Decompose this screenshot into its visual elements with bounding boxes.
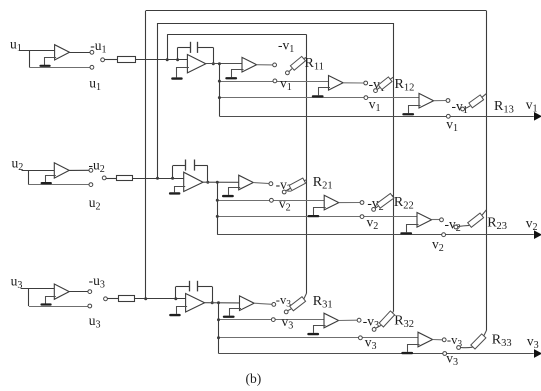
op-amp integrator (186, 294, 205, 313)
node contact -v3 switch S33 (442, 338, 446, 342)
node integrator input junction (176, 58, 179, 61)
node contact -v2 switch S23 (440, 218, 444, 222)
wire S13 pole lever (465, 106, 471, 109)
transistor bar on A30 feedback (40, 303, 51, 305)
wire R32 to bus (392, 312, 395, 313)
op-amp A31 buffer (240, 296, 255, 311)
op-amp A32 (324, 313, 339, 328)
switch pole S11 (286, 71, 290, 75)
wire inner feedback rail top (v to row1 input) (167, 34, 306, 36)
node contact -v3 switch S32 (357, 318, 361, 322)
switch pole S33 (457, 346, 461, 350)
resistor R33 (471, 334, 486, 349)
wire integrator feedback top-right (198, 286, 213, 288)
wire outer rail left vertical x=145.7 (145, 11, 147, 299)
arrow output v3 (535, 350, 541, 357)
capacitor integrator feedback C (190, 42, 192, 53)
ground integrator (169, 314, 181, 316)
resistor R21 (289, 178, 306, 191)
wire feedback bottom of A30 (29, 306, 88, 308)
wire feedback bottom of A20 (28, 184, 89, 186)
ground A13 (402, 113, 414, 115)
switch pole S21 (282, 190, 286, 194)
wire integrator feedback up (172, 166, 174, 178)
ground A23 (400, 232, 412, 234)
wire S11 pole lever (289, 69, 292, 72)
node integrator3 feedback-output junction (211, 301, 214, 304)
node -u2 switch contact (89, 168, 93, 172)
wire integrator input (136, 59, 188, 61)
node contact v2 switch S23 on output line (442, 233, 446, 237)
wire A32 lower input to ground (314, 326, 326, 333)
wire A13 lower input to ground (409, 106, 421, 114)
wire A20 output to contact (69, 169, 89, 171)
wire integrator2 output (203, 181, 239, 183)
wire pole to input resistor (107, 298, 118, 300)
node contact v2 switch S22 on tap C (360, 215, 364, 219)
node contact -v1 switch S11 (273, 63, 277, 67)
ground A33 (401, 352, 413, 354)
capacitor integrator feedback C (185, 160, 187, 171)
wire feedback tap up into A30 inverting input (46, 297, 56, 304)
wire A13 output to contact (434, 100, 447, 102)
wire middle feedback rail top (v to row2 input) (157, 23, 393, 25)
op-amp integrator (187, 55, 205, 73)
ground A11 buffer (225, 77, 237, 79)
wire A23 output to contact (432, 219, 440, 221)
node integrator input junction (174, 297, 177, 300)
node -u1 switch contact (90, 50, 94, 54)
node contact v2 switch S21 on tap B (270, 198, 274, 202)
wire integrator1 output (206, 63, 242, 65)
node integrator1 feedback-output junction (212, 62, 215, 65)
op-amp A23 (417, 213, 432, 228)
op-amp A21 buffer (239, 175, 254, 190)
resistor R31 (290, 297, 306, 311)
wire A31 buffer lower input to ground (230, 309, 242, 316)
wire row1 branch vertical (219, 64, 221, 117)
ground integrator (171, 77, 183, 79)
capacitor integrator feedback C (189, 281, 191, 292)
wire integrator feedback top-right (198, 47, 214, 49)
wire pole to input resistor (106, 178, 116, 180)
wire A31 output to contact (254, 303, 272, 304)
op-amp input follower A20 (54, 163, 69, 178)
wire middle rail right vertical bus x=393.3 (R12/R22/R32 bus) (393, 23, 395, 312)
switch pole S12 (374, 89, 378, 93)
node row3 branch junction (217, 301, 220, 304)
wire integrator feedback down to output (213, 48, 215, 64)
ground A21 buffer (222, 195, 234, 197)
switch pole S3 (104, 297, 108, 301)
op-amp input follower A30 (54, 284, 69, 299)
switch pole S13 (461, 107, 465, 111)
wire A21 output to contact (253, 183, 269, 184)
wire integrator feedback up (175, 287, 177, 299)
wire inner rail right vertical bus x=306.4 (R11/R21/R31 bus) (306, 34, 308, 293)
wire A10 output to contact (70, 52, 91, 54)
node integrator input junction (171, 177, 174, 180)
wire outer rail right vertical bus x=486.4 (R13/R23/R33 bus) (486, 11, 488, 331)
wire A33 output to contact (433, 339, 443, 341)
wire middle rail left vertical x=157.4 (157, 23, 159, 178)
node contact v1 switch S11 on tap B (273, 79, 277, 83)
svg-text:-u1: -u1 (90, 38, 110, 56)
wire row1 tap C (219, 97, 419, 99)
op-amp A11 buffer (242, 57, 257, 72)
wire u1 input (20, 50, 55, 52)
svg-text:-u3: -u3 (89, 273, 109, 291)
svg-text:-v1: -v1 (278, 38, 298, 56)
wire A11 buffer lower input to ground (232, 70, 244, 78)
resistor input R2 (117, 176, 133, 181)
resistor R13 (469, 95, 484, 108)
wire A32 output to contact (339, 319, 358, 321)
svg-text:(b): (b) (246, 371, 262, 386)
resistor R22 (377, 194, 394, 209)
wire row1 output line D (219, 116, 533, 118)
transistor bar on A20 feedback (41, 182, 52, 184)
node u2 switch contact (89, 183, 93, 187)
arrow output v1 (535, 113, 541, 120)
wire A21 buffer lower input to ground (229, 188, 241, 195)
wire A33 lower input to ground (408, 345, 420, 352)
wire integrator feedback down to output (207, 166, 209, 182)
switch pole S2 (102, 176, 106, 180)
wire u3 input (21, 288, 55, 290)
wire integrator feedback top-left (176, 286, 190, 288)
node u1 switch contact (90, 65, 94, 69)
wire A30 output to contact (69, 291, 88, 293)
ground A22 (308, 215, 320, 217)
wire S22 pole lever (375, 206, 378, 208)
wire pole to input resistor (105, 59, 118, 61)
wire R23 to bus (482, 210, 487, 216)
wire S33 pole lever (461, 346, 473, 348)
wire A11 output to contact -v1 (257, 64, 273, 66)
node contact -v1 switch S12 (364, 81, 368, 85)
wire S21 pole lever (286, 188, 290, 190)
wire feedback tap up into A20 inverting input (46, 176, 56, 183)
resistor input R1 (118, 57, 136, 63)
wire row2 branch vertical (217, 182, 219, 234)
wire A23 lower input to ground (407, 225, 419, 233)
resistor R12 (378, 77, 392, 90)
wire integrator feedback up (177, 48, 179, 60)
wire R11 to bus (304, 57, 307, 58)
transistor bar on A10 feedback (39, 65, 50, 67)
resistor R32 (379, 311, 394, 327)
node contact v3 switch S32 on tap C (359, 336, 363, 340)
wire row3 tap C (219, 337, 419, 339)
node -u3 switch contact (88, 290, 92, 294)
wire R13 to bus (482, 94, 487, 98)
wire A12 output to contact (343, 82, 364, 84)
node row2 input junction from middle rail (156, 177, 159, 180)
op-amp A22 (324, 195, 339, 210)
wire integrator3 output (205, 302, 240, 304)
ground A32 (307, 333, 319, 335)
wire R22 to bus (392, 194, 393, 197)
node row3 input junction from outer rail (144, 297, 147, 300)
switch pole S22 (372, 208, 376, 212)
wire row1 tap B (219, 81, 328, 83)
node row2 branch junction (216, 181, 219, 184)
switch pole S23 (454, 225, 458, 229)
resistor R11 (290, 56, 305, 70)
wire integrator lower input to ground (177, 68, 189, 78)
node contact v1 switch S13 on output line (446, 114, 450, 118)
node integrator2 feedback-output junction (206, 181, 209, 184)
wire feedback tap up into A10 inverting input (45, 58, 57, 66)
wire row2 output line D (217, 234, 534, 236)
op-amp integrator (184, 172, 203, 191)
node contact -v2 switch S22 (360, 201, 364, 205)
wire integrator lower input to ground (177, 307, 188, 314)
wire row3 branch vertical (218, 303, 220, 354)
wire feedback down left of A20 (28, 170, 30, 184)
switch pole S32 (372, 328, 376, 332)
op-amp input follower A10 (55, 45, 70, 60)
wire A22 output to contact (339, 202, 360, 204)
wire R31 to bus (304, 294, 307, 300)
wire integrator input (134, 298, 185, 300)
switch pole S1 (101, 58, 105, 62)
wire feedback down left of A10 (29, 50, 31, 67)
wire S32 pole lever (376, 325, 381, 328)
wire S23 pole lever (458, 225, 469, 226)
wire row2 tap C (217, 216, 417, 218)
wire R33 to bus (484, 331, 487, 336)
node contact -v3 switch S31 (272, 303, 276, 307)
node row1 branch junction (218, 62, 221, 65)
node contact v1 switch S12 on tap C (364, 96, 368, 100)
wire integrator input (132, 178, 183, 180)
wire R21 to bus (304, 179, 306, 182)
op-amp A13 (419, 93, 434, 108)
wire row2 tap B (217, 200, 324, 202)
op-amp A33 (418, 332, 433, 347)
wire integrator feedback top-left (173, 165, 186, 167)
node contact -v1 switch S13 (446, 99, 450, 103)
arrow output v2 (535, 231, 541, 238)
ground integrator (169, 192, 181, 194)
wire feedback bottom of A10 (29, 67, 90, 69)
node u3 switch contact (88, 304, 92, 308)
svg-text:-u2: -u2 (89, 157, 109, 175)
resistor input R3 (119, 296, 135, 302)
wire row3 tap B (219, 319, 327, 321)
op-amp A12 (329, 76, 344, 91)
node row1 input junction from inner rail (166, 58, 169, 61)
resistor R23 (468, 213, 484, 227)
wire integrator lower input to ground (175, 187, 186, 193)
wire integrator feedback top-right (194, 165, 208, 167)
wire A12 lower input to ground (319, 88, 331, 96)
wire feedback down left of A30 (28, 288, 30, 306)
switch pole S31 (284, 310, 288, 314)
node contact -v2 switch S21 (269, 182, 273, 186)
wire A22 lower input to ground (314, 208, 326, 216)
node contact v3 switch S33 on output line (443, 352, 447, 356)
ground A12 (312, 95, 324, 97)
wire S12 pole lever (377, 88, 380, 90)
wire S31 pole lever (288, 309, 291, 311)
wire row3 output line D (219, 353, 534, 355)
wire R12 to bus (390, 77, 393, 79)
wire integrator feedback top-left (178, 47, 191, 49)
wire u2 input (22, 170, 55, 172)
wire integrator feedback down to output (212, 287, 214, 303)
wire inner rail left vertical x=167.2 (167, 34, 169, 59)
ground A31 buffer (223, 316, 235, 318)
node contact v3 switch S31 on tap B (271, 318, 275, 322)
wire outer feedback rail top (v to row3 input) (146, 10, 487, 12)
